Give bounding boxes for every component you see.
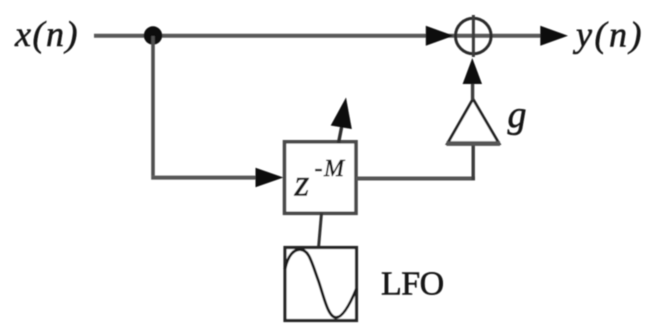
wire horizontal to delay block	[151, 176, 262, 180]
wire tail above delay block	[339, 125, 343, 143]
arrowhead into delay block	[256, 168, 284, 187]
wire from delay block bottom to LFO	[319, 213, 322, 248]
arrowhead into summing junction from left	[426, 26, 454, 46]
svg-text:y(n): y(n)	[573, 15, 644, 55]
svg-text:LFO: LFO	[381, 266, 444, 303]
svg-text:x(n): x(n)	[14, 14, 79, 54]
summing junction plus vertical stroke	[472, 15, 475, 57]
LFO box	[285, 248, 357, 321]
node label x(n)	[14, 14, 79, 54]
gain label g	[508, 94, 527, 136]
arrowhead up out of delay block top	[331, 98, 352, 130]
summing junction circle	[456, 18, 492, 54]
arrowhead before y(n)	[540, 26, 568, 46]
node label y(n)	[573, 15, 644, 55]
delay block z^-M	[285, 142, 357, 214]
wire up from corner to gain triangle base	[472, 143, 475, 180]
wire from delay block right to corner	[356, 177, 475, 181]
svg-text:z: z	[294, 163, 310, 205]
wire input from x(n) through summing junction plus-stroke	[94, 34, 546, 38]
LFO sine wave	[285, 250, 357, 318]
svg-text:-M: -M	[315, 156, 346, 182]
node junction dot	[144, 26, 162, 44]
wire vertical from junction dot down	[151, 36, 155, 176]
svg-text:g: g	[508, 94, 527, 136]
arrowhead up into summing junction	[463, 58, 482, 84]
value label z	[294, 163, 310, 205]
gain triangle g	[447, 99, 501, 144]
block label LFO	[381, 266, 444, 303]
wire from triangle apex up	[471, 82, 474, 100]
value label exponent -M	[315, 156, 346, 182]
